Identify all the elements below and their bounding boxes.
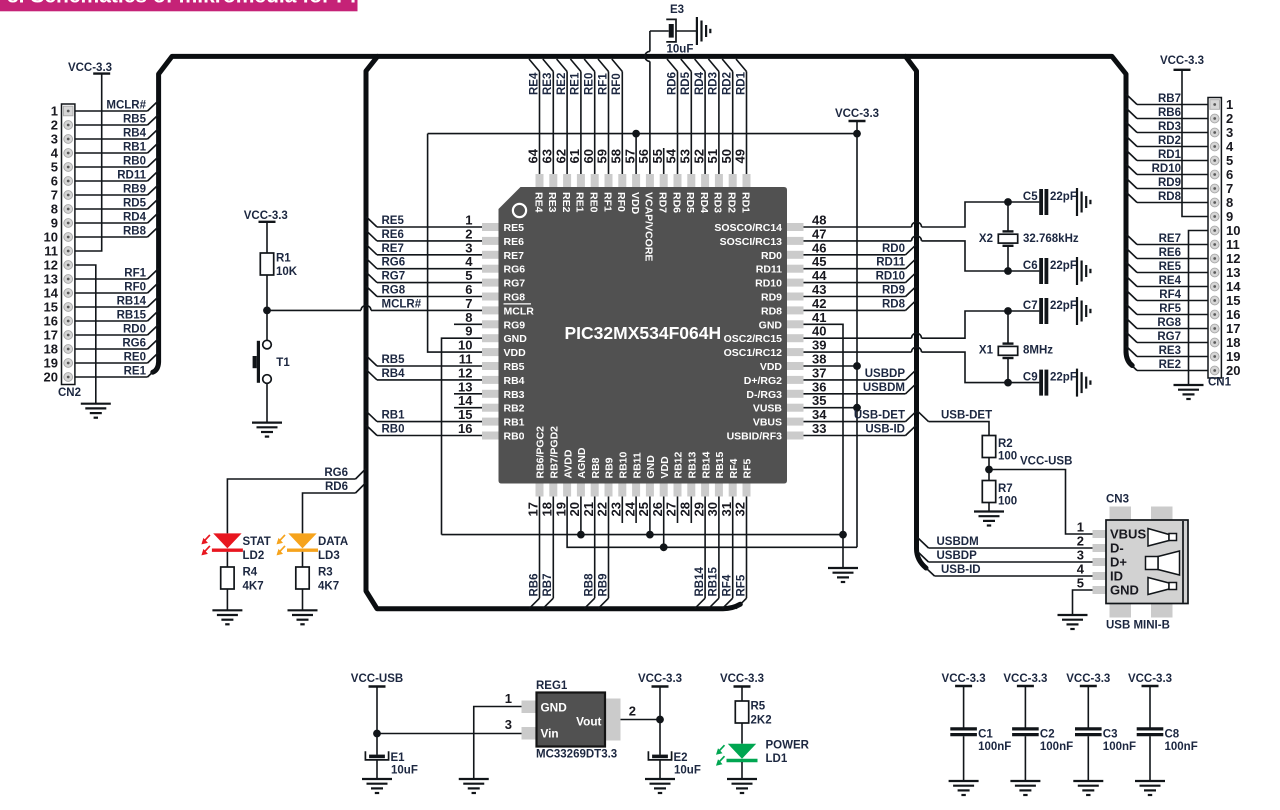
svg-text:RG8: RG8 xyxy=(504,292,526,304)
wire USBDM exit to CN3 pin2 xyxy=(918,538,929,549)
node junction GND rail xyxy=(839,531,847,539)
svg-text:18: 18 xyxy=(540,502,555,516)
wire MCU bottom pin 30 net RB15 xyxy=(718,497,720,599)
svg-text:RD9: RD9 xyxy=(882,285,905,297)
svg-text:28: 28 xyxy=(678,502,693,516)
svg-text:C2: C2 xyxy=(1040,729,1055,741)
svg-text:3: 3 xyxy=(1226,125,1233,140)
power VCC-3.3 above R5 xyxy=(734,685,751,687)
wire CN2 pin 1 net MCLR# xyxy=(75,110,148,112)
svg-text:RG9: RG9 xyxy=(504,319,526,331)
stub MCU pin 27 RB12 xyxy=(677,497,679,524)
wire MCU pin 15 net RB1 xyxy=(377,421,482,423)
svg-text:USBDM: USBDM xyxy=(937,536,979,548)
svg-text:100: 100 xyxy=(998,496,1017,508)
wire MCU bottom pin 18 net RB7 xyxy=(552,497,554,599)
svg-text:20: 20 xyxy=(567,502,582,516)
svg-text:51: 51 xyxy=(705,149,720,163)
svg-text:23: 23 xyxy=(609,502,624,516)
wire CN2 pin 19 net RE0 xyxy=(75,362,148,364)
wire MCU pin 20 AGND down xyxy=(580,497,582,535)
CN3 contact 2 xyxy=(1158,551,1180,575)
svg-text:RE3: RE3 xyxy=(546,192,558,213)
wire USB-ID exit to CN3 pin4 xyxy=(926,568,935,576)
CN2 pin 6 xyxy=(64,177,73,186)
svg-text:RF1: RF1 xyxy=(597,73,609,95)
ground below CN1 xyxy=(1174,384,1204,386)
ground below R3 xyxy=(288,609,318,611)
svg-text:GND: GND xyxy=(541,701,568,715)
svg-text:SOSCI/RC13: SOSCI/RC13 xyxy=(720,236,783,248)
svg-text:RD2: RD2 xyxy=(1158,135,1181,147)
svg-text:60: 60 xyxy=(581,149,596,163)
wire MCU top pin 58 net RF0 xyxy=(621,72,623,175)
wire R3 to ground xyxy=(302,589,304,610)
svg-text:GND: GND xyxy=(1110,583,1139,598)
power VCC-3.3 above C3 xyxy=(1080,685,1097,687)
capacitor C2 100nF xyxy=(1012,727,1039,730)
svg-text:2: 2 xyxy=(51,118,58,133)
svg-text:2: 2 xyxy=(629,704,636,719)
capacitor E1 10uF xyxy=(365,751,388,760)
svg-text:RB14: RB14 xyxy=(694,566,706,596)
wire MCLR node down to T1 xyxy=(266,310,268,340)
svg-text:RD1: RD1 xyxy=(739,192,751,213)
power VCC-3.3 above E2 xyxy=(652,685,669,687)
CN1 pin 4 xyxy=(1210,142,1219,151)
wire CN1 pin 2 net RB6 xyxy=(1137,118,1208,120)
svg-text:RB6: RB6 xyxy=(1158,107,1181,119)
svg-text:RE1: RE1 xyxy=(124,366,147,378)
svg-text:R7: R7 xyxy=(998,483,1013,495)
svg-text:RD0: RD0 xyxy=(123,324,146,336)
wire MCU pin 56 VCAP up to E3 with hop over bus xyxy=(649,61,651,174)
svg-text:11: 11 xyxy=(44,244,58,259)
wire CN3 pin5 GND xyxy=(1073,590,1093,615)
resistor R3 4K7 xyxy=(296,567,309,589)
node junction C7/X1 xyxy=(1004,307,1012,315)
svg-text:T1: T1 xyxy=(276,357,290,369)
wire E2 to ground xyxy=(659,760,661,779)
ground below R7 xyxy=(974,510,1004,512)
LED LD1 POWER (green) xyxy=(728,744,756,759)
wire MCU top pin 63 net RE3 xyxy=(552,72,554,175)
CN1 pin 14 xyxy=(1210,282,1219,291)
wire X1 to C9 xyxy=(1007,358,1009,383)
wire MCU pin 44 net RD10 xyxy=(804,282,906,284)
wire CN2 pin 15 net RB14 xyxy=(75,306,148,308)
wire MCU pin 39 OSC1 to X1/C9 (hop over bus) xyxy=(804,351,912,353)
wire MCU pin 9 GND down to under-chip gnd rail xyxy=(442,338,483,534)
svg-text:9: 9 xyxy=(1226,209,1233,224)
svg-text:56: 56 xyxy=(636,149,651,163)
svg-text:22pF: 22pF xyxy=(1050,372,1077,384)
svg-text:1: 1 xyxy=(1226,97,1233,112)
svg-text:15: 15 xyxy=(44,300,58,315)
capacitor C6 22pF xyxy=(1039,258,1043,284)
wire top VDD rail y=133.6 xyxy=(428,133,857,135)
svg-text:22pF: 22pF xyxy=(1050,260,1077,272)
wire CN2 pin 14 net RF0 xyxy=(75,292,148,294)
svg-text:RF0: RF0 xyxy=(615,192,627,212)
svg-text:19: 19 xyxy=(553,502,568,516)
MCU pads top side xyxy=(536,174,544,187)
pushbutton T1 xyxy=(263,340,272,349)
svg-text:32: 32 xyxy=(733,502,748,516)
svg-text:RD2: RD2 xyxy=(722,72,734,95)
CN1 pin 16 xyxy=(1210,310,1219,319)
CN1 pin 20 xyxy=(1210,366,1219,375)
svg-text:10: 10 xyxy=(458,338,472,353)
svg-text:RD6: RD6 xyxy=(325,481,348,493)
svg-text:44: 44 xyxy=(812,268,827,283)
CN2 pin 7 xyxy=(64,191,73,200)
svg-text:RB4: RB4 xyxy=(382,368,406,380)
ground below REG1 pin1 xyxy=(459,778,489,780)
MCU MCLR overline xyxy=(504,303,532,305)
wire MCU pin 26 VDD down xyxy=(663,497,665,548)
svg-text:54: 54 xyxy=(664,148,679,163)
ground below T1 xyxy=(252,422,282,424)
wire T1 to ground xyxy=(266,383,268,422)
ground below MCU right xyxy=(828,567,858,569)
ground below C1 xyxy=(949,780,979,782)
svg-text:RD6: RD6 xyxy=(666,72,678,95)
svg-text:RB13: RB13 xyxy=(687,451,699,478)
svg-text:RB7: RB7 xyxy=(542,573,554,596)
ground at C7 xyxy=(1076,297,1078,325)
capacitor C1 100nF xyxy=(950,727,977,730)
svg-text:RB0: RB0 xyxy=(504,431,525,443)
svg-text:RF5: RF5 xyxy=(735,574,747,596)
svg-text:RG6: RG6 xyxy=(324,467,348,479)
svg-text:10uF: 10uF xyxy=(674,765,701,777)
wire CN2 pin 16 net RB15 xyxy=(75,320,148,322)
capacitor E2 10uF xyxy=(648,751,671,760)
wire CN2 pin 3 net RB4 xyxy=(75,138,148,140)
wire RD6 from bus to LD3 xyxy=(356,483,367,494)
CN2 pin 4 xyxy=(64,149,73,158)
ground below E1 xyxy=(362,778,392,780)
svg-text:RB7/PGD2: RB7/PGD2 xyxy=(549,426,561,479)
wire MCU pin 36 USBDM bus entry xyxy=(804,393,906,395)
svg-text:VDD: VDD xyxy=(504,347,527,359)
CN2 pin 10 xyxy=(64,233,73,242)
svg-text:58: 58 xyxy=(609,149,624,163)
svg-text:RB4: RB4 xyxy=(123,128,147,140)
svg-text:PIC32MX534F064H: PIC32MX534F064H xyxy=(564,323,721,343)
svg-text:2: 2 xyxy=(1077,534,1084,549)
svg-text:RB15: RB15 xyxy=(714,451,726,478)
svg-text:GND: GND xyxy=(645,455,657,479)
wire R2-R7 xyxy=(988,458,990,481)
svg-text:36: 36 xyxy=(812,379,826,394)
LED LD3 DATA (orange) xyxy=(288,533,316,548)
wire MCU top pin 52 net RD4 xyxy=(704,72,706,175)
wire VCC-3.3 to CN2 pin 11 xyxy=(75,74,102,251)
wire MCU pin 1 net RE5 xyxy=(377,226,482,228)
wire VCC-3.3 to CN1 pin 9 xyxy=(1182,70,1208,217)
wire MCU pin 40 OSC2 to X1/C7 (hop over bus) xyxy=(804,337,912,339)
svg-text:VCC-3.3: VCC-3.3 xyxy=(1128,673,1172,685)
MCU pin-1 indicator circle xyxy=(513,204,526,217)
svg-text:RD10: RD10 xyxy=(755,278,782,290)
svg-text:49: 49 xyxy=(733,149,748,163)
capacitor C8 100nF xyxy=(1137,727,1164,730)
node junction C5/X2 xyxy=(1004,198,1012,206)
wire MCU pin 7 MCLR# with hop over bus xyxy=(267,309,361,311)
svg-text:10: 10 xyxy=(44,230,58,245)
svg-text:46: 46 xyxy=(812,240,826,255)
wire CN2 pin 17 net RD0 xyxy=(75,334,148,336)
svg-text:CN1: CN1 xyxy=(1208,377,1232,389)
svg-text:RB15: RB15 xyxy=(708,566,720,596)
svg-text:RD7: RD7 xyxy=(657,192,669,213)
svg-text:RE5: RE5 xyxy=(382,215,405,227)
svg-text:RE6: RE6 xyxy=(504,236,525,248)
svg-text:32.768kHz: 32.768kHz xyxy=(1023,233,1079,245)
svg-text:RG8: RG8 xyxy=(382,285,406,297)
svg-text:RE4: RE4 xyxy=(528,72,540,95)
svg-text:12: 12 xyxy=(44,258,58,273)
crystal X1 8MHz xyxy=(1003,342,1014,344)
svg-text:26: 26 xyxy=(650,502,665,516)
svg-text:21: 21 xyxy=(581,502,596,516)
wire MCU pin 11 net RB5 xyxy=(377,365,482,367)
wire MCU pin 3 net RE7 xyxy=(377,254,482,256)
node junction C6/X2 xyxy=(1004,267,1012,275)
resistor R5 2K2 xyxy=(735,701,748,723)
wire MCU top pin 60 net RE0 xyxy=(594,72,596,175)
wire MCU pin 6 net RG8 xyxy=(377,296,482,298)
wire CN2 pin 7 net RB9 xyxy=(75,194,148,196)
wire X2 branch xyxy=(1007,202,1009,232)
svg-text:R3: R3 xyxy=(318,567,333,579)
CN1 pin 8 xyxy=(1210,198,1219,207)
resistor R7 100 xyxy=(982,481,995,503)
svg-text:RF5: RF5 xyxy=(1159,303,1181,315)
wire CN1 pin 16 net RF5 xyxy=(1137,314,1208,316)
svg-text:RE5: RE5 xyxy=(504,222,525,234)
wire CN2 pin 4 net RB1 xyxy=(75,152,148,154)
connector CN1 body xyxy=(1208,98,1221,379)
svg-text:24: 24 xyxy=(622,501,637,516)
svg-text:17: 17 xyxy=(1226,321,1240,336)
svg-text:13: 13 xyxy=(458,379,472,394)
svg-text:3: 3 xyxy=(505,717,512,732)
wire VCC-USB to CN3 pin1 xyxy=(989,470,1093,535)
wire C8 to ground xyxy=(1149,736,1151,781)
svg-text:LD1: LD1 xyxy=(766,753,788,765)
capacitor C9 22pF xyxy=(1039,370,1043,396)
wire MCU bottom pin 32 net RF5 xyxy=(746,497,748,599)
ground below C2 xyxy=(1010,780,1040,782)
wire CN1 pin 15 net RF4 xyxy=(1137,300,1208,302)
svg-text:VCC-3.3: VCC-3.3 xyxy=(835,108,879,120)
wire MCU bottom pin 22 net RB9 xyxy=(608,497,610,599)
wire MCU pin 16 net RB0 xyxy=(377,435,482,437)
CN2 pin 5 xyxy=(64,163,73,172)
svg-text:SOSCO/RC14: SOSCO/RC14 xyxy=(714,222,782,234)
svg-text:19: 19 xyxy=(1226,349,1240,364)
svg-text:RB0: RB0 xyxy=(123,156,146,168)
svg-text:RF4: RF4 xyxy=(722,574,734,596)
svg-text:RD1: RD1 xyxy=(735,71,747,95)
svg-text:RE0: RE0 xyxy=(124,352,146,364)
wire X2 to C6 xyxy=(1007,246,1009,271)
svg-text:20: 20 xyxy=(44,370,58,385)
svg-text:43: 43 xyxy=(812,282,826,297)
svg-text:RG7: RG7 xyxy=(382,271,406,283)
svg-text:USBID/RF3: USBID/RF3 xyxy=(727,431,783,443)
svg-text:RE6: RE6 xyxy=(382,229,404,241)
svg-text:RG6: RG6 xyxy=(122,338,146,350)
svg-text:POWER: POWER xyxy=(766,740,810,752)
svg-text:RB8: RB8 xyxy=(123,226,147,238)
svg-text:8: 8 xyxy=(51,202,58,217)
svg-text:12: 12 xyxy=(458,365,472,380)
wire CN1 pin 19 net RE3 xyxy=(1137,356,1208,358)
svg-text:VCC-USB: VCC-USB xyxy=(1020,456,1072,468)
svg-text:9: 9 xyxy=(465,324,472,339)
svg-text:USB-DET: USB-DET xyxy=(941,410,992,422)
svg-text:R2: R2 xyxy=(998,438,1013,450)
CN1 pin 13 xyxy=(1210,268,1219,277)
wire MCU pin 2 net RE6 xyxy=(377,240,482,242)
capacitor C5 22pF xyxy=(1039,189,1043,215)
svg-text:Vin: Vin xyxy=(541,727,559,741)
wire CN2 pin 13 net RF1 xyxy=(75,278,148,280)
CN2 pin 2 xyxy=(64,121,73,130)
svg-text:VUSB: VUSB xyxy=(753,403,783,415)
svg-text:RD8: RD8 xyxy=(882,298,906,310)
svg-text:RF4: RF4 xyxy=(728,459,740,479)
svg-text:8MHz: 8MHz xyxy=(1023,345,1053,357)
svg-text:ID: ID xyxy=(1110,569,1123,584)
svg-text:USB-ID: USB-ID xyxy=(865,424,905,436)
power VCC-3.3 right of MCU top xyxy=(849,120,866,122)
wire CN1 pin 3 net RD3 xyxy=(1137,132,1208,134)
wire CN1 pin 6 net RD10 xyxy=(1137,174,1208,176)
wire VCC-3.3 stem to E2 xyxy=(659,687,661,755)
resistor R2 100 xyxy=(982,436,995,458)
svg-text:31: 31 xyxy=(719,502,734,516)
svg-text:4K7: 4K7 xyxy=(243,581,264,593)
wire CN1 pin 11 net RE7 xyxy=(1137,244,1208,246)
svg-text:100nF: 100nF xyxy=(978,741,1011,753)
bus trunk: top rail with CN2 and CN1 drops xyxy=(153,56,1132,372)
svg-text:RD1: RD1 xyxy=(1158,149,1182,161)
svg-text:4: 4 xyxy=(465,254,473,269)
svg-text:8: 8 xyxy=(465,310,472,325)
CN2 pin 17 xyxy=(64,331,73,340)
svg-text:RB9: RB9 xyxy=(604,457,616,478)
ground below LD1 xyxy=(727,778,757,780)
svg-text:RB3: RB3 xyxy=(504,389,525,401)
svg-text:E2: E2 xyxy=(674,752,688,764)
svg-text:12: 12 xyxy=(1226,251,1240,266)
wire CN2 pin 6 net RD11 xyxy=(75,180,148,182)
svg-text:R4: R4 xyxy=(243,567,258,579)
CN1 pin 3 xyxy=(1210,128,1219,137)
wire CN1 pin 12 net RE6 xyxy=(1137,258,1208,260)
stub MCU pin 23 RB10 xyxy=(621,497,623,524)
wire MCU pin 33 USB-ID bus entry xyxy=(804,435,906,437)
svg-text:18: 18 xyxy=(44,342,58,357)
svg-text:RD4: RD4 xyxy=(694,71,706,95)
svg-text:GND: GND xyxy=(504,333,528,345)
svg-text:RE0: RE0 xyxy=(584,73,596,95)
wire MCU top pin 50 net RD2 xyxy=(732,72,734,175)
svg-text:8. Schematics of mikromedia fo: 8. Schematics of mikromedia for PIC32 xyxy=(7,0,394,7)
svg-text:39: 39 xyxy=(812,338,826,353)
svg-text:RD8: RD8 xyxy=(761,305,782,317)
svg-text:OSC2/RC15: OSC2/RC15 xyxy=(724,333,783,345)
wire RG6 from bus to LD2 xyxy=(356,469,367,480)
svg-text:VDD: VDD xyxy=(659,456,671,479)
svg-text:1: 1 xyxy=(465,213,472,228)
wire VCC to C8 xyxy=(1149,686,1151,729)
svg-text:7: 7 xyxy=(51,188,58,203)
wire MCU pin 34 USB-DET bus entry xyxy=(804,421,906,423)
svg-text:CN3: CN3 xyxy=(1106,494,1129,506)
wire MCU bottom pin 29 net RB14 xyxy=(704,497,706,599)
CN2 pin 1 xyxy=(63,106,73,116)
svg-text:4: 4 xyxy=(51,146,59,161)
svg-text:RE0: RE0 xyxy=(588,192,600,213)
wire MCU bottom pin 17 net RB6 xyxy=(539,497,541,599)
svg-text:11: 11 xyxy=(1226,237,1240,252)
CN1 pin 11 xyxy=(1210,240,1219,249)
svg-text:R5: R5 xyxy=(751,701,766,713)
svg-text:RD0: RD0 xyxy=(882,243,905,255)
svg-text:MCLR: MCLR xyxy=(504,305,535,317)
ground below C3 xyxy=(1073,780,1103,782)
svg-text:2K2: 2K2 xyxy=(751,715,772,727)
svg-text:2: 2 xyxy=(465,226,472,241)
svg-text:33: 33 xyxy=(812,421,826,436)
wire GND (pin 1) xyxy=(474,707,522,780)
svg-text:RG7: RG7 xyxy=(1157,331,1181,343)
wire VCC-USB down xyxy=(376,687,378,755)
power VCC-3.3 above C8 xyxy=(1142,685,1159,687)
CN2 pin 14 xyxy=(64,289,73,298)
svg-text:VBUS: VBUS xyxy=(753,417,782,429)
resistor R1 10K xyxy=(260,253,273,275)
svg-text:29: 29 xyxy=(691,502,706,516)
svg-text:RF1: RF1 xyxy=(124,268,146,280)
bus branch: MCU island left+bottom xyxy=(366,56,740,608)
svg-text:15: 15 xyxy=(458,407,472,422)
svg-text:STAT: STAT xyxy=(243,536,271,548)
svg-text:RD4: RD4 xyxy=(698,192,710,213)
CN2 pin 20 xyxy=(64,373,73,382)
capacitor E3 10uF xyxy=(650,30,669,32)
wire VCC-3.3 stem down right side of MCU xyxy=(856,121,858,547)
svg-text:AVDD: AVDD xyxy=(562,449,574,478)
svg-text:VDD: VDD xyxy=(629,192,641,215)
svg-text:C8: C8 xyxy=(1165,729,1180,741)
svg-text:RB10: RB10 xyxy=(618,451,630,478)
wire MCU pin 41 GND down to ground xyxy=(804,324,844,568)
wire MCU pin 37 USBDP bus entry xyxy=(804,379,906,381)
crystal X2 32.768kHz xyxy=(1003,230,1014,232)
svg-text:25: 25 xyxy=(636,502,651,516)
wire CN1 pin 5 net RD1 xyxy=(1137,160,1208,162)
svg-text:USB-ID: USB-ID xyxy=(941,564,981,576)
svg-text:59: 59 xyxy=(595,149,610,163)
LED LD2 STAT (red) xyxy=(213,533,241,548)
